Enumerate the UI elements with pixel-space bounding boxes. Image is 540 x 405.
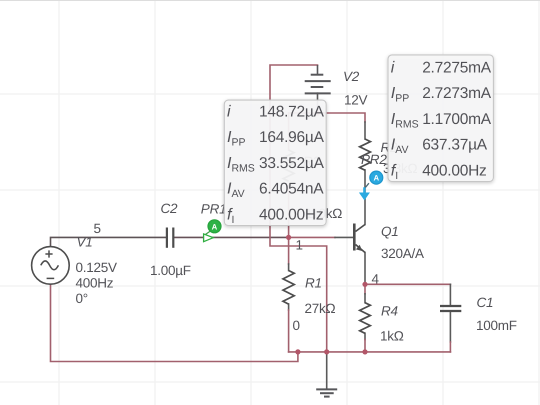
svg-text:C2: C2 (161, 201, 179, 216)
svg-text:100mF: 100mF (476, 318, 517, 333)
svg-text:R4: R4 (381, 304, 398, 319)
svg-text:148.72µA: 148.72µA (259, 103, 325, 120)
capacitor C2 (167, 228, 173, 248)
wire net 1: junction to Q1 base (red segment) (289, 236, 335, 238)
resistor R1 (283, 271, 294, 305)
svg-text:2.7273mA: 2.7273mA (422, 85, 492, 102)
svg-text:320A/A: 320A/A (381, 246, 424, 261)
wire V1 minus return to ground rail (51, 284, 298, 362)
wire node 4 to C1 top (365, 283, 450, 285)
svg-text:2.7275mA: 2.7275mA (422, 59, 492, 76)
svg-text:V1: V1 (77, 235, 93, 250)
svg-text:Q1: Q1 (381, 224, 399, 239)
wire R3 bottom to node 1 junction (288, 185, 290, 237)
svg-text:PR2: PR2 (361, 152, 387, 167)
junction V1 return at ground rail (295, 349, 300, 354)
wire net 5: V1 plus terminal to C2 left plate (51, 237, 167, 246)
svg-text:400Hz: 400Hz (76, 276, 114, 291)
wire R4 bottom to ground rail (364, 340, 366, 352)
svg-text:A: A (373, 174, 379, 183)
current probe PR1 (204, 220, 221, 242)
svg-text:4: 4 (372, 272, 380, 287)
svg-text:i: i (227, 103, 231, 120)
wire C1 bottom lead (449, 312, 451, 342)
svg-text:1.00µF: 1.00µF (150, 263, 191, 278)
wire R1 bottom lead (288, 304, 290, 310)
svg-text:i: i (391, 59, 395, 76)
wire V2 positive bottom lead (317, 93, 319, 113)
wire R2 bottom lead to Q1 collector (364, 170, 366, 225)
probe readout PR1 box (224, 100, 326, 226)
svg-text:V2: V2 (343, 69, 360, 84)
wire C1 bottom to ground rail (449, 342, 451, 352)
resistor R2 (360, 139, 371, 170)
junction node 4 (362, 282, 367, 287)
svg-text:637.37µA: 637.37µA (422, 137, 488, 154)
wire net 1: C2 right plate to junction at R1/R3 column (174, 236, 289, 238)
svg-text:0°: 0° (76, 291, 88, 306)
svg-text:1kΩ: 1kΩ (380, 329, 404, 344)
wire Q1 base lead stub (335, 236, 353, 238)
wire node 1 junction down to R1 top (288, 237, 290, 264)
svg-text:0.125V: 0.125V (76, 260, 118, 275)
wire R1 top lead (288, 264, 290, 271)
wire Q1 emitter to node 4 (364, 253, 366, 285)
svg-text:6.4054nA: 6.4054nA (259, 181, 324, 198)
svg-text:12V: 12V (344, 93, 368, 108)
probe readout PR2 box (388, 55, 493, 182)
junction V2 positive at VCC rail (hidden behind probe readout) (315, 110, 320, 115)
svg-text:33.552µA: 33.552µA (259, 155, 325, 172)
svg-text:400.00Hz: 400.00Hz (259, 206, 323, 223)
wire C1 top lead (449, 284, 451, 305)
svg-text:A: A (212, 222, 218, 231)
svg-text:5: 5 (94, 221, 102, 236)
junction ground tap (324, 349, 329, 354)
svg-text:27kΩ: 27kΩ (305, 301, 336, 316)
resistor R3 (hidden behind probe readout) (283, 150, 294, 181)
svg-text:0: 0 (293, 318, 301, 333)
svg-text:PR1: PR1 (201, 202, 227, 217)
wire ground rail net 0 (289, 351, 451, 353)
svg-text:164.96µA: 164.96µA (259, 129, 325, 146)
battery V2 (305, 65, 331, 93)
wire R1 bottom to ground rail (288, 310, 290, 352)
ground (316, 389, 337, 396)
transistor Q1 (354, 224, 365, 253)
capacitor C1 (440, 306, 461, 311)
junction R4 at ground rail (362, 349, 367, 354)
wire R2 top lead (364, 122, 366, 139)
wire V2 negative terminal loop to ground rail (270, 65, 327, 352)
resistor R4 (360, 303, 371, 334)
wire node 4 to R4 top (364, 284, 366, 294)
svg-text:1.1700mA: 1.1700mA (422, 111, 492, 128)
wire R4 bottom lead (364, 333, 366, 339)
current probe PR2 (359, 171, 383, 200)
wire ground symbol lead (326, 352, 328, 389)
AC source V1 (32, 247, 70, 285)
wire VCC rail from R3 top past V2 positive lead to R2 top (289, 113, 365, 122)
junction node 1 (286, 235, 291, 240)
svg-text:C1: C1 (477, 295, 494, 310)
svg-text:400.00Hz: 400.00Hz (422, 162, 486, 179)
svg-text:1: 1 (296, 238, 304, 253)
wire R4 top lead (364, 294, 366, 303)
wire R3 top column (288, 113, 290, 150)
svg-text:R1: R1 (305, 276, 322, 291)
